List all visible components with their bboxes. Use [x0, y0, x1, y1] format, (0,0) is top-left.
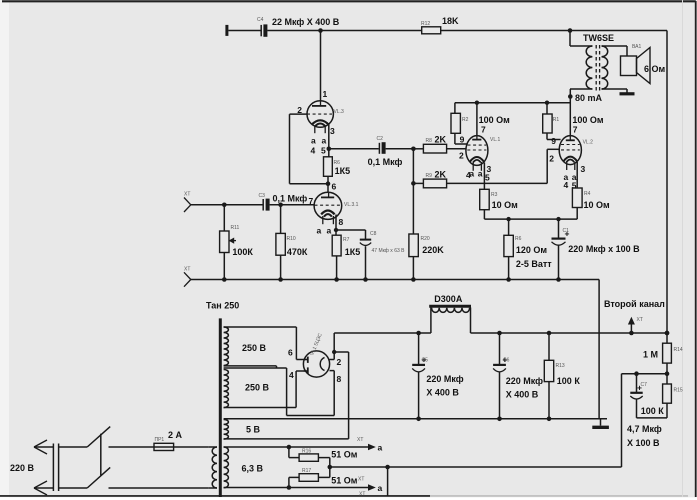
svg-text:220 Мкф: 220 Мкф	[506, 376, 543, 386]
svg-text:R6: R6	[515, 236, 522, 242]
svg-text:R2: R2	[462, 117, 469, 123]
svg-text:10 Ом: 10 Ом	[584, 200, 611, 210]
svg-text:18K: 18K	[442, 16, 459, 26]
svg-text:2: 2	[459, 151, 464, 161]
svg-text:0,1 Мкф: 0,1 Мкф	[368, 157, 403, 167]
svg-text:R14: R14	[674, 347, 683, 353]
svg-text:2K: 2K	[435, 135, 447, 145]
svg-text:8: 8	[339, 217, 344, 227]
svg-text:6: 6	[288, 348, 293, 358]
svg-text:250 В: 250 В	[245, 383, 270, 393]
svg-text:VL.3: VL.3	[334, 109, 345, 115]
svg-text:2: 2	[337, 357, 342, 367]
svg-text:R11: R11	[231, 225, 240, 231]
svg-text:R3: R3	[491, 192, 498, 198]
svg-text:6: 6	[332, 182, 337, 192]
svg-text:C3: C3	[259, 193, 266, 199]
svg-text:120 Ом: 120 Ом	[516, 245, 548, 255]
svg-text:R17: R17	[302, 468, 311, 474]
svg-text:6 Ом: 6 Ом	[644, 64, 666, 74]
svg-text:220 В: 220 В	[10, 463, 35, 473]
svg-text:а: а	[378, 483, 383, 493]
svg-text:100К: 100К	[232, 247, 253, 257]
svg-text:2: 2	[549, 154, 554, 164]
svg-text:9: 9	[551, 136, 556, 146]
svg-text:80 mA: 80 mA	[575, 93, 603, 103]
svg-text:TW6SE: TW6SE	[583, 33, 614, 43]
svg-text:VL.3.1: VL.3.1	[344, 202, 359, 208]
svg-text:100 К: 100 К	[641, 406, 665, 416]
svg-text:Х 400 В: Х 400 В	[506, 390, 539, 400]
svg-text:4: 4	[311, 146, 316, 156]
svg-text:2 А: 2 А	[168, 430, 183, 440]
svg-text:а: а	[311, 136, 316, 146]
svg-text:100 К: 100 К	[557, 376, 581, 386]
svg-text:ВА1: ВА1	[632, 44, 642, 50]
svg-text:+: +	[637, 383, 642, 393]
svg-text:47 Мкф х 63 В: 47 Мкф х 63 В	[372, 248, 406, 254]
svg-text:R13: R13	[556, 363, 565, 369]
svg-text:R9: R9	[426, 173, 433, 179]
svg-text:100 Ом: 100 Ом	[572, 115, 604, 125]
svg-text:2-5 Ватт: 2-5 Ватт	[516, 259, 552, 269]
svg-text:XT: XT	[357, 437, 363, 443]
svg-text:XT: XT	[358, 477, 364, 483]
svg-text:9: 9	[460, 135, 465, 145]
svg-text:а: а	[327, 226, 332, 236]
svg-text:220 Мкф: 220 Мкф	[426, 374, 463, 384]
svg-text:100 Ом: 100 Ом	[479, 115, 511, 125]
svg-text:5: 5	[321, 146, 326, 156]
svg-text:7: 7	[573, 125, 578, 135]
svg-text:250 В: 250 В	[242, 343, 267, 353]
svg-text:R10: R10	[287, 236, 296, 242]
svg-text:а: а	[322, 136, 327, 146]
svg-text:220K: 220K	[422, 245, 444, 255]
svg-text:C4: C4	[257, 17, 264, 23]
svg-text:8: 8	[337, 374, 342, 384]
svg-text:+: +	[422, 355, 427, 365]
svg-text:C2: C2	[377, 136, 384, 142]
svg-text:1К5: 1К5	[335, 166, 351, 176]
svg-text:R16: R16	[302, 449, 311, 455]
svg-text:а: а	[378, 443, 383, 453]
svg-text:а: а	[317, 226, 322, 236]
svg-text:5 В: 5 В	[246, 425, 261, 435]
svg-text:Тан 250: Тан 250	[206, 301, 239, 311]
svg-text:R7: R7	[343, 237, 350, 243]
svg-text:R20: R20	[421, 236, 430, 242]
svg-text:10 Ом: 10 Ом	[492, 200, 519, 210]
svg-text:1 М: 1 М	[643, 350, 658, 360]
svg-text:XT: XT	[184, 192, 190, 198]
svg-text:R8: R8	[426, 138, 433, 144]
svg-text:VL.2: VL.2	[583, 140, 594, 146]
svg-text:C8: C8	[370, 231, 377, 237]
svg-text:5: 5	[485, 172, 490, 182]
svg-text:R15: R15	[674, 388, 683, 394]
svg-text:+: +	[502, 355, 507, 365]
svg-text:470К: 470К	[287, 247, 308, 257]
svg-text:ПР1: ПР1	[155, 437, 165, 443]
svg-text:1К5: 1К5	[345, 247, 361, 257]
svg-text:4,7 Мкф: 4,7 Мкф	[627, 424, 662, 434]
svg-text:7: 7	[481, 125, 486, 135]
svg-text:XT: XT	[637, 317, 643, 323]
svg-text:Второй канал: Второй канал	[604, 299, 665, 309]
svg-text:6,3 В: 6,3 В	[242, 464, 264, 474]
svg-text:+: +	[565, 229, 570, 239]
svg-text:D300A: D300A	[434, 294, 463, 304]
svg-text:4: 4	[564, 180, 569, 190]
svg-text:R12: R12	[421, 21, 430, 27]
svg-text:0,1 Мкф: 0,1 Мкф	[273, 194, 308, 204]
svg-text:Х 400 В: Х 400 В	[426, 388, 459, 398]
svg-text:51 Ом: 51 Ом	[331, 450, 358, 460]
svg-text:VL.1: VL.1	[490, 137, 501, 143]
svg-text:XT: XT	[184, 267, 190, 273]
svg-text:R1: R1	[553, 117, 560, 123]
svg-text:Х 100 В: Х 100 В	[627, 438, 660, 448]
svg-text:XT: XT	[359, 492, 365, 498]
svg-text:22 Мкф X 400 В: 22 Мкф X 400 В	[272, 17, 340, 27]
svg-text:3: 3	[330, 126, 335, 136]
svg-text:а: а	[478, 168, 483, 178]
svg-text:3: 3	[581, 164, 586, 174]
svg-text:4: 4	[466, 170, 471, 180]
svg-text:4: 4	[289, 370, 294, 380]
svg-text:2K: 2K	[435, 170, 447, 180]
svg-text:1: 1	[323, 89, 328, 99]
svg-text:220 Мкф х 100 В: 220 Мкф х 100 В	[568, 244, 640, 254]
svg-text:51 Ом: 51 Ом	[331, 476, 358, 486]
svg-text:R4: R4	[584, 191, 591, 197]
